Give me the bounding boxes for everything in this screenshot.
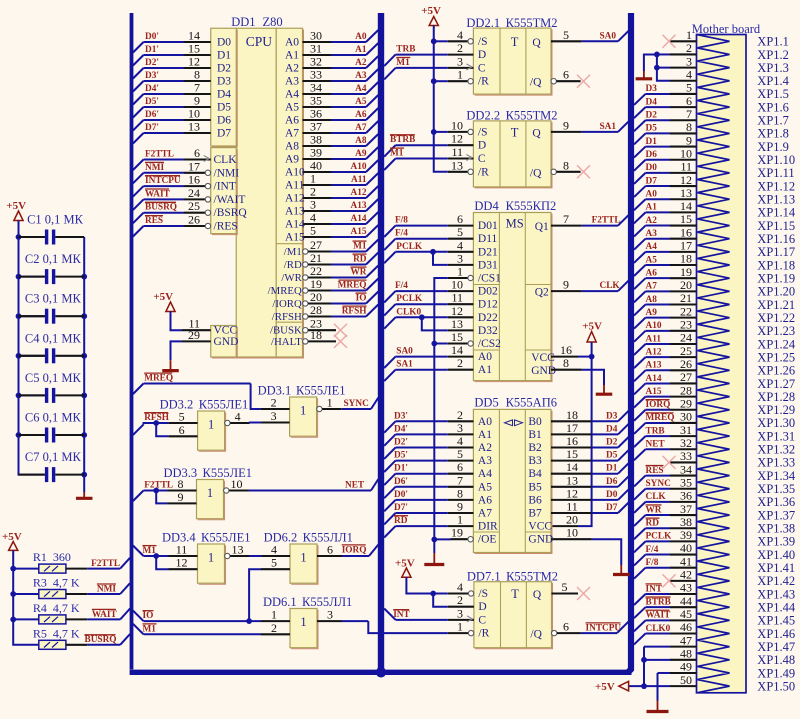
- svg-text:D7': D7': [145, 123, 159, 133]
- svg-text:Mother board: Mother board: [692, 22, 761, 36]
- svg-text:43: 43: [680, 581, 692, 595]
- capacitor C5: [19, 371, 85, 403]
- svg-text:A5: A5: [646, 255, 658, 265]
- resistor R5: [33, 626, 80, 649]
- svg-text:D4: D4: [646, 97, 658, 107]
- svg-text:D12: D12: [478, 299, 498, 311]
- DD2.2 pin name /R: [478, 166, 489, 178]
- DD6.2 output pin 6 stub: [317, 543, 342, 557]
- label XP1.41: [757, 561, 795, 575]
- wire A2 from CPU pin 32 to bus: [303, 55, 379, 69]
- svg-text:XP1.38: XP1.38: [757, 522, 795, 536]
- wire connector pins 2,3,4 to ground: [644, 52, 670, 81]
- CPU pin name /BUSK: [270, 325, 302, 337]
- label XP1.46: [757, 627, 795, 641]
- label DD3.2 title: [160, 398, 249, 412]
- svg-text:XP1.2: XP1.2: [757, 48, 789, 62]
- svg-text:F/8: F/8: [395, 216, 408, 226]
- svg-text:B6: B6: [528, 494, 542, 506]
- DD5 pin name GND: [528, 534, 553, 546]
- svg-text:A14: A14: [646, 374, 662, 384]
- svg-text:IO: IO: [356, 294, 367, 304]
- svg-text:C: C: [478, 614, 486, 626]
- label XP1.35: [757, 482, 795, 496]
- svg-text:XP1.23: XP1.23: [757, 324, 795, 338]
- label XP1.23: [757, 324, 795, 338]
- svg-text:12: 12: [680, 173, 692, 187]
- wire D6 from DD5 B5 pin 13 to bus: [551, 473, 629, 487]
- svg-text:DD2.2: DD2.2: [466, 109, 500, 123]
- svg-text:8: 8: [457, 486, 463, 500]
- wire WR from CPU pin 22 (/WR) to bus: [303, 264, 379, 280]
- svg-text:6: 6: [327, 543, 333, 557]
- svg-text:XP1.42: XP1.42: [757, 574, 795, 588]
- DD4 pin 11 (D12) stub: [448, 291, 474, 305]
- label XP1.25: [757, 350, 795, 364]
- wire F2TTL from DD4 Q1 pin 7 to bus: [551, 212, 629, 226]
- label XP1.4: [757, 74, 789, 88]
- svg-text:31: 31: [310, 42, 322, 56]
- svg-text:19: 19: [310, 277, 322, 291]
- svg-text:D3: D3: [606, 411, 618, 421]
- svg-text:F2TTL: F2TTL: [144, 481, 173, 491]
- CPU pin name /RD: [284, 259, 302, 271]
- svg-text:XP1.33: XP1.33: [757, 456, 795, 470]
- DD4 pin 5 (D11) stub: [448, 225, 474, 239]
- svg-text:15: 15: [451, 330, 463, 344]
- svg-text:18: 18: [680, 252, 692, 266]
- connector pin 43 net INT: [634, 581, 697, 605]
- svg-text:32: 32: [310, 55, 322, 69]
- svg-text:К555ЛЕ1: К555ЛЕ1: [199, 398, 248, 412]
- wire D0' to CPU pin 14: [133, 29, 211, 53]
- svg-text:A4: A4: [478, 468, 492, 480]
- wire MREQ from CPU pin 19 (/MREQ) to bus: [303, 277, 379, 293]
- svg-text:F2TTL: F2TTL: [592, 216, 621, 226]
- wire A6 from CPU pin 36 to bus: [303, 107, 379, 121]
- bus junction middle/bottom: [376, 667, 386, 677]
- svg-text:XP1.21: XP1.21: [757, 298, 795, 312]
- wire A5 from CPU pin 35 to bus: [303, 94, 379, 108]
- connector pin 36 net CLK: [634, 489, 697, 513]
- label XP1.44: [757, 600, 796, 614]
- wire A4 from CPU pin 34 to bus: [303, 81, 379, 95]
- DD2.2 pin 10 (/S) stub: [448, 118, 474, 134]
- wire F2TTL from bus to DD3.3 pins 8,9: [133, 481, 173, 504]
- CPU pin name /INT: [214, 181, 236, 193]
- svg-text:/Q: /Q: [530, 167, 542, 179]
- svg-text:4: 4: [310, 211, 316, 225]
- wire BUSRQ to CPU pin 25 (/BSRQ): [133, 199, 211, 223]
- wire PCLK from bus to DD4 D12: [384, 294, 448, 315]
- svg-text:DD3.2: DD3.2: [160, 398, 194, 412]
- label XP1.14: [757, 206, 796, 220]
- wire +5V to CPU VCC pin 11: [153, 291, 210, 331]
- op-amp?: CPU DD1 Z80 body middle section: [236, 28, 277, 358]
- svg-text:D1: D1: [646, 137, 658, 147]
- svg-text:13: 13: [451, 317, 463, 331]
- connector pin 1 no connect: [663, 28, 697, 48]
- ground (connector pins 2-4): [636, 71, 653, 79]
- svg-text:R3 4,7 K: R3 4,7 K: [33, 576, 80, 590]
- connector pin 25 net A12: [634, 344, 697, 368]
- wire SA1 from bus to DD4 A1: [384, 360, 448, 381]
- svg-text:18: 18: [310, 328, 322, 342]
- wire IO from bus to DD6.1 pin 1: [133, 611, 261, 622]
- svg-text:9: 9: [686, 133, 692, 147]
- svg-text:A0: A0: [646, 190, 658, 200]
- svg-text:A3: A3: [646, 229, 658, 239]
- svg-text:24: 24: [680, 331, 692, 345]
- svg-text:A13: A13: [350, 201, 366, 211]
- svg-text:M1: M1: [143, 546, 157, 556]
- connector pin 13 net A0: [634, 186, 697, 210]
- svg-text:10: 10: [231, 477, 243, 491]
- wire M1 from bus to DD2.1 C pin 3: [384, 58, 448, 80]
- svg-text:15: 15: [566, 447, 578, 461]
- svg-text:33: 33: [680, 449, 692, 463]
- svg-text:A1: A1: [478, 364, 492, 376]
- svg-text:GND: GND: [214, 336, 239, 348]
- DD4 pin name D02: [478, 286, 498, 298]
- svg-text:39: 39: [310, 146, 322, 160]
- svg-text:4: 4: [457, 238, 463, 252]
- DD7.1 pin 2 (D) stub: [448, 593, 474, 607]
- svg-text:XP1.6: XP1.6: [757, 100, 789, 114]
- svg-text:A4: A4: [355, 84, 367, 94]
- DD3.4 input pin 12 stub: [169, 556, 198, 570]
- svg-text:NMI: NMI: [97, 584, 116, 594]
- CPU pin name D6: [217, 115, 231, 127]
- label XP1.10: [757, 153, 795, 167]
- svg-text:A10: A10: [350, 162, 366, 172]
- svg-text:MREQ: MREQ: [144, 374, 173, 384]
- svg-text:D6: D6: [606, 477, 618, 487]
- svg-text:10: 10: [451, 278, 463, 292]
- svg-text:2: 2: [457, 41, 463, 55]
- svg-text:6: 6: [563, 68, 569, 82]
- CPU pin name VCC: [214, 325, 238, 337]
- ground (DD4 GND): [596, 385, 613, 394]
- svg-text:23: 23: [680, 318, 692, 332]
- DD3.2 output pin 4 stub: [225, 410, 250, 426]
- svg-text:B5: B5: [528, 481, 542, 493]
- svg-text:D2: D2: [217, 63, 231, 75]
- DD5 pin name B3: [528, 455, 542, 467]
- svg-text:26: 26: [680, 357, 692, 371]
- svg-text:6: 6: [194, 146, 200, 160]
- svg-text:NET: NET: [345, 481, 365, 491]
- connector pin 28 net A15: [634, 383, 697, 407]
- label XP1.38: [757, 522, 795, 536]
- connector pin 22 net A9: [634, 304, 697, 328]
- svg-text:36: 36: [680, 489, 692, 503]
- capacitor C2: [19, 252, 85, 284]
- DD4 pin name D32: [478, 325, 498, 337]
- svg-text:48: 48: [680, 647, 692, 661]
- svg-text:2: 2: [457, 408, 463, 422]
- CPU pin name /HALT: [271, 336, 302, 348]
- wire A11 from CPU pin 1 to bus: [303, 172, 379, 186]
- svg-text:D2: D2: [646, 111, 658, 121]
- label XP1.31: [757, 429, 795, 443]
- DD4 pin 12 (D22) stub: [448, 304, 474, 318]
- DD3.3 input pin 9 stub: [168, 490, 197, 504]
- svg-text:6: 6: [457, 460, 463, 474]
- DD6.2 input pin 4 stub: [261, 543, 290, 557]
- label Mother board: [692, 22, 761, 36]
- svg-text:/HALT: /HALT: [271, 336, 302, 348]
- DD5 VCC pin 20 number: [566, 513, 578, 527]
- DD3.1 output pin 1 stub: [317, 396, 342, 412]
- DD2.2 pin 12 (D) stub: [448, 132, 474, 146]
- DD3.3 gate symbol 1: [207, 486, 213, 500]
- svg-text:A8: A8: [355, 136, 367, 146]
- svg-text:45: 45: [680, 607, 692, 621]
- wire SA0 from bus to DD4 A0: [384, 347, 448, 368]
- svg-text:Q1: Q1: [535, 221, 549, 233]
- wire D0 from DD5 B6 pin 12 to bus: [551, 486, 629, 500]
- DD4 pin 2 (A1) stub: [448, 356, 474, 370]
- DD4 pin name Q1: [535, 221, 549, 233]
- svg-text:CLK0: CLK0: [396, 307, 421, 317]
- svg-text:VCC: VCC: [214, 325, 238, 337]
- svg-text:A12: A12: [350, 188, 366, 198]
- svg-text:15: 15: [680, 212, 692, 226]
- svg-text:5: 5: [310, 224, 316, 238]
- CPU pin name D7: [217, 128, 231, 140]
- label XP1.33: [757, 456, 795, 470]
- bus: middle address/data bus: [378, 13, 384, 672]
- DD7.1 T label: [511, 587, 519, 601]
- gate DD3.2 К555ЛЕ1 body: [198, 411, 226, 451]
- label XP1.24: [757, 337, 796, 351]
- svg-text:XP1.1: XP1.1: [757, 35, 789, 49]
- svg-text:A8: A8: [646, 295, 658, 305]
- DD2.1 pin name C: [478, 62, 486, 74]
- DD2.2 pin name /S: [478, 126, 488, 138]
- label XP1.36: [757, 495, 795, 509]
- DD6.2 input pin 5 stub: [261, 556, 290, 570]
- svg-text:13: 13: [566, 473, 578, 487]
- connector pin 42 no connect: [663, 568, 697, 588]
- connector pin 41 net F/8: [634, 554, 697, 578]
- CPU pin name A0: [285, 37, 299, 49]
- svg-text:31: 31: [680, 423, 692, 437]
- svg-text:R5 4,7 K: R5 4,7 K: [33, 626, 80, 640]
- svg-text:2: 2: [271, 396, 277, 410]
- wire +5V rail to DD2.1/DD2.2 set-reset pins: [421, 5, 448, 172]
- svg-text:A11: A11: [351, 175, 367, 185]
- gate DD3.1 К555ЛЕ1 body: [290, 397, 318, 437]
- svg-text:44: 44: [680, 594, 692, 608]
- svg-text:XP1.32: XP1.32: [757, 443, 795, 457]
- ground (capacitor bank): [76, 492, 93, 498]
- label XP1.26: [757, 364, 795, 378]
- capacitor C3: [19, 292, 85, 324]
- DD5 pin name DIR: [478, 521, 498, 533]
- svg-text:6: 6: [563, 620, 569, 634]
- svg-text:XP1.44: XP1.44: [757, 600, 796, 614]
- svg-text:XP1.40: XP1.40: [757, 548, 795, 562]
- svg-text:A7: A7: [646, 282, 658, 292]
- connector pin 30 net MREQ: [634, 410, 697, 434]
- CPU DD1 left pin strip (data): [211, 28, 238, 147]
- wire INT from bus to DD7.1 C pin 3: [384, 609, 448, 621]
- svg-text:XP1.43: XP1.43: [757, 587, 795, 601]
- svg-text:7: 7: [457, 473, 463, 487]
- label XP1.32: [757, 443, 795, 457]
- svg-text:XP1.19: XP1.19: [757, 271, 795, 285]
- CPU DD1 left pin strip (power): [211, 326, 238, 359]
- wire A3 from CPU pin 33 to bus: [303, 68, 379, 82]
- label XP1.8: [757, 127, 789, 141]
- connector pin 32 net NET: [634, 436, 697, 460]
- svg-text:D1: D1: [217, 50, 231, 62]
- svg-text:1: 1: [310, 172, 316, 186]
- DD5 pin name A0: [478, 416, 492, 428]
- svg-text:DD7.1: DD7.1: [467, 570, 501, 584]
- svg-text:8: 8: [194, 68, 200, 82]
- svg-text:28: 28: [680, 383, 692, 397]
- DD6.2 gate symbol 1: [300, 551, 306, 565]
- mux DD4 К555КП2 body: [473, 213, 552, 382]
- svg-text:Q: Q: [532, 37, 541, 49]
- svg-text:XP1.15: XP1.15: [757, 219, 795, 233]
- svg-text:17: 17: [680, 239, 692, 253]
- DD5 pin name A5: [478, 481, 492, 493]
- svg-text:A4: A4: [646, 242, 658, 252]
- bus: bottom bus: [130, 670, 632, 675]
- wire D7' to CPU pin 13: [133, 120, 211, 144]
- svg-text:30: 30: [310, 29, 322, 43]
- label XP1.11: [757, 166, 794, 180]
- svg-text:C3 0,1 МК: C3 0,1 МК: [25, 292, 82, 306]
- svg-text:D6': D6': [394, 477, 408, 487]
- svg-text:D4: D4: [606, 424, 618, 434]
- label XP1.9: [757, 140, 789, 154]
- CPU pin name D0: [217, 37, 231, 49]
- svg-text:25: 25: [680, 344, 692, 358]
- svg-text:CPU: CPU: [246, 34, 273, 49]
- wire DD6.1 pin1 net to DD6.2 pin 5: [246, 569, 261, 624]
- wire A0 from CPU pin 30 to bus: [303, 29, 379, 43]
- wire A9 from CPU pin 39 to bus: [303, 146, 379, 160]
- DD7.1 pin 1 (/R) stub: [448, 620, 474, 636]
- CPU pin name A13: [285, 206, 305, 218]
- svg-text:MREQ: MREQ: [646, 413, 675, 423]
- gate DD3.3 К555ЛЕ1 body: [197, 480, 225, 520]
- svg-text:D3': D3': [145, 71, 159, 81]
- wire D7 from DD5 B7 pin 11 to bus: [551, 500, 629, 514]
- svg-text:A6: A6: [646, 268, 658, 278]
- svg-text:3: 3: [457, 251, 463, 265]
- svg-text:XP1.18: XP1.18: [757, 258, 795, 272]
- svg-text:RES: RES: [646, 466, 664, 476]
- capacitor C4: [19, 331, 85, 363]
- connector pin 12 net D7: [634, 173, 697, 197]
- connector pin 40 net F/4: [634, 541, 697, 565]
- connector pin 11 net D0: [634, 160, 697, 184]
- svg-text:A15: A15: [350, 227, 366, 237]
- svg-text:46: 46: [680, 620, 692, 634]
- DD2.2 pin name Q: [532, 127, 541, 139]
- svg-text:14: 14: [680, 199, 692, 213]
- svg-text:1: 1: [686, 28, 692, 42]
- svg-text:XP1.48: XP1.48: [757, 653, 795, 667]
- label DD5 title: [474, 395, 557, 409]
- svg-text:9: 9: [563, 118, 569, 132]
- connector pin 48: [670, 647, 697, 661]
- label XP1.48: [757, 653, 795, 667]
- CPU pin name A9: [285, 154, 299, 166]
- svg-text:D2: D2: [606, 438, 618, 448]
- svg-text:1: 1: [300, 615, 306, 629]
- svg-text:/RD: /RD: [284, 259, 302, 271]
- svg-text:D0: D0: [217, 37, 231, 49]
- svg-text:B0: B0: [528, 416, 542, 428]
- svg-text:5: 5: [563, 28, 569, 42]
- svg-text:D32: D32: [478, 325, 498, 337]
- svg-text:M1: M1: [390, 149, 404, 159]
- svg-text:DD1: DD1: [231, 15, 255, 29]
- wire CLK0 from bus to DD4 D22/D32: [384, 307, 448, 330]
- svg-text:XP1.39: XP1.39: [757, 535, 795, 549]
- svg-text:20: 20: [566, 513, 578, 527]
- DD2.1 pin 3 (C) stub: [448, 54, 474, 70]
- label XP1.3: [757, 61, 789, 75]
- svg-text:WAIT: WAIT: [92, 610, 118, 620]
- svg-text:A15: A15: [646, 387, 662, 397]
- wire CLK from DD4 Q2 pin 9 to bus: [551, 278, 629, 292]
- wire M1 from bus to DD6.1 pin 2: [133, 624, 261, 635]
- label DD1 Z80: [231, 15, 282, 29]
- svg-text:B7: B7: [528, 508, 542, 520]
- svg-text:XP1.49: XP1.49: [757, 666, 795, 680]
- wire D7' from bus to DD5 A7 pin 9: [384, 500, 473, 525]
- resistor R3: [33, 576, 80, 599]
- svg-text:MS: MS: [506, 216, 524, 230]
- svg-text:A9: A9: [646, 308, 658, 318]
- CPU pin name D3: [217, 76, 231, 88]
- svg-text:13: 13: [188, 120, 200, 134]
- svg-text:33: 33: [310, 68, 322, 82]
- wire +5V to DD4 VCC pin 16 and DD5 VCC pin 20: [551, 321, 602, 527]
- label XP1.2: [757, 48, 789, 62]
- svg-text:A6: A6: [478, 494, 492, 506]
- svg-text:XP1.5: XP1.5: [757, 87, 789, 101]
- DD2.1 T label: [511, 35, 519, 49]
- capacitor C1: [19, 213, 85, 245]
- svg-text:C: C: [478, 153, 486, 165]
- svg-text:+5V: +5V: [153, 291, 173, 303]
- wire D2 from DD5 B2 pin 16 to bus: [551, 434, 629, 448]
- wire A15 from CPU pin 5 to bus: [303, 224, 379, 238]
- svg-text:XP1.28: XP1.28: [757, 390, 795, 404]
- wire F/4 from bus to DD4 D11: [384, 229, 448, 250]
- CPU pin name /IORQ: [272, 298, 302, 310]
- wire INTCPU from DD7.1 /Q pin 6 to bus: [552, 620, 629, 636]
- CPU pin name A14: [285, 219, 305, 231]
- DD2.2 pin name D: [478, 140, 486, 152]
- label XP1.13: [757, 193, 795, 207]
- svg-text:D1: D1: [606, 464, 618, 474]
- label XP1.18: [757, 258, 795, 272]
- svg-text:XP1.41: XP1.41: [757, 561, 795, 575]
- svg-text:30: 30: [680, 410, 692, 424]
- connector pin 2: [670, 41, 697, 55]
- svg-text:SA1: SA1: [600, 122, 617, 132]
